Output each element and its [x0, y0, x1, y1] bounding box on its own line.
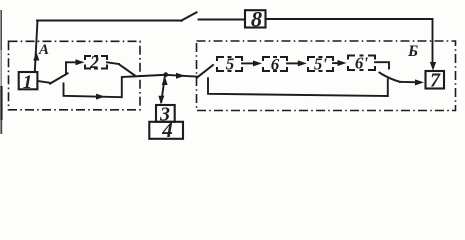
- svg-text:8: 8: [251, 6, 262, 31]
- svg-text:6': 6': [355, 54, 369, 73]
- svg-text:7: 7: [430, 70, 441, 92]
- svg-text:6: 6: [271, 55, 280, 74]
- svg-text:4: 4: [161, 118, 173, 142]
- svg-text:1: 1: [23, 72, 33, 93]
- svg-text:Б: Б: [407, 43, 418, 60]
- svg-text:5: 5: [226, 55, 235, 74]
- svg-text:2: 2: [89, 52, 99, 72]
- svg-text:А: А: [38, 42, 49, 58]
- svg-text:5': 5': [314, 55, 328, 74]
